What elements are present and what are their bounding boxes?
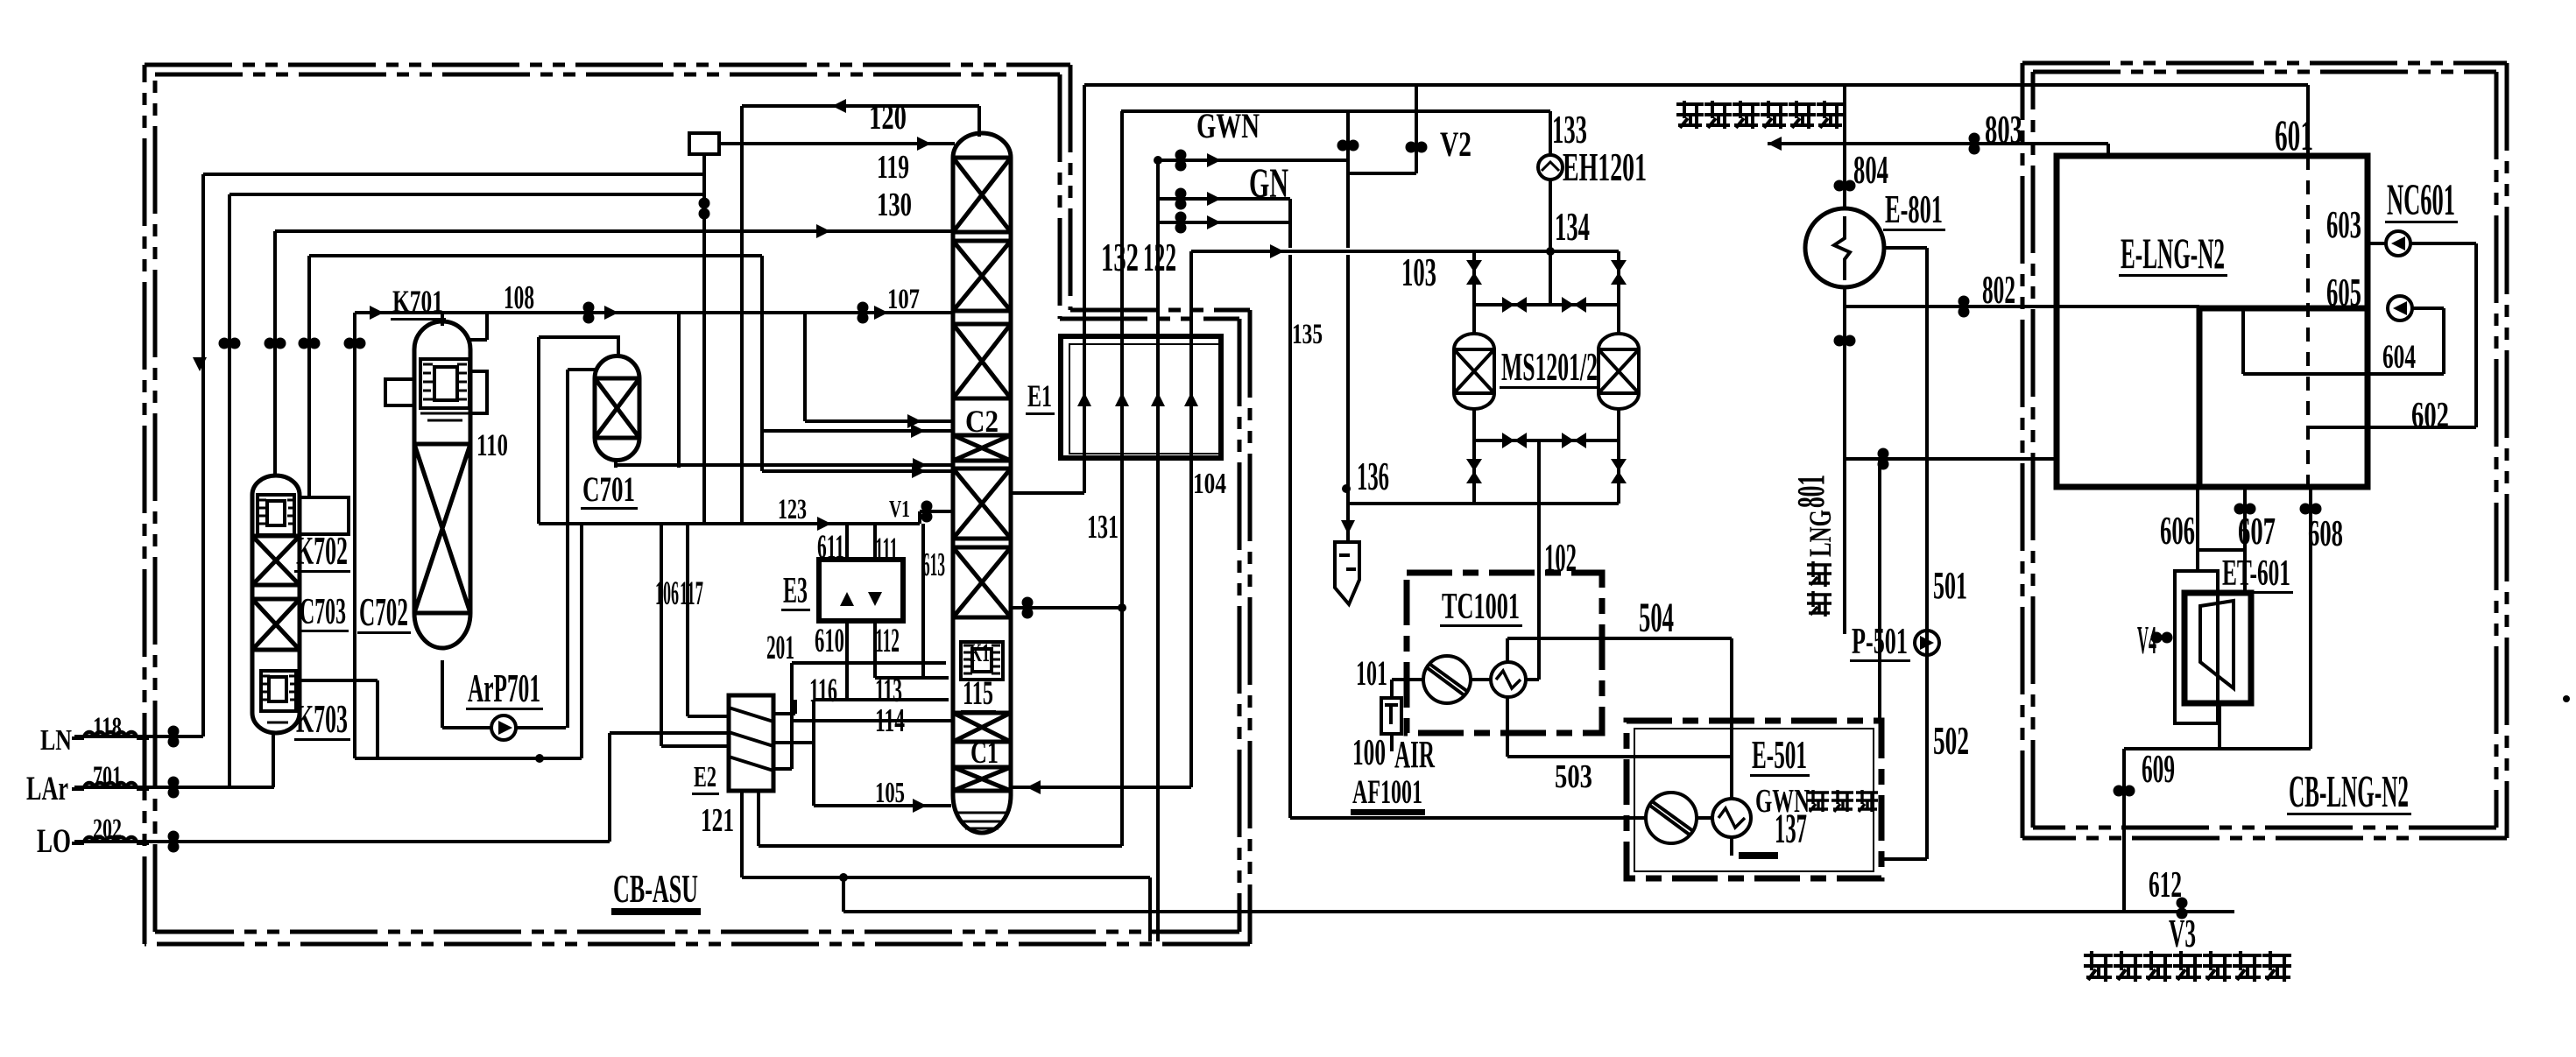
svg-text:E1: E1 <box>1027 378 1052 413</box>
svg-text:100: 100 <box>1352 733 1386 773</box>
valve 803 <box>1969 133 1980 155</box>
CB-LNG-N2 cold box border inner bottom <box>2033 826 2496 830</box>
pipe 802 line to second exchanger box <box>1845 305 2199 308</box>
column packing section small below C2 <box>953 435 1011 461</box>
svg-text:K703: K703 <box>296 697 348 741</box>
label char gao rotated <box>1807 591 1831 617</box>
pipe C701 bottom stub <box>614 461 618 468</box>
exchanger E-501 squiggle <box>1719 808 1745 828</box>
svg-text:EH1201: EH1201 <box>1563 144 1647 189</box>
pipe C702 bottom to pump <box>441 660 444 728</box>
coil LO supply <box>84 837 137 843</box>
pipe 135 feed to E-501 compressor <box>1290 816 1646 820</box>
pump NC601 upper <box>2386 231 2410 256</box>
valve riser4 <box>299 338 321 349</box>
svg-text:613: 613 <box>922 546 945 583</box>
valve instrument drop <box>699 198 710 220</box>
pipe C701 left header drop <box>537 337 540 524</box>
valve 108 <box>583 302 595 324</box>
pipe P4 elbow <box>300 496 309 499</box>
svg-text:K701: K701 <box>392 284 443 319</box>
arrow 123 flow <box>817 517 831 531</box>
junction node <box>535 754 544 763</box>
arrow E1 stream <box>1184 392 1198 406</box>
turbine ET-601 wheel <box>2200 601 2234 688</box>
pipe riser P3 to K702 <box>273 231 277 477</box>
pipe E2 out bottom <box>773 767 792 771</box>
C703 packing upper <box>252 536 300 585</box>
CB-LNG-N2 cold box border inner top <box>2033 70 2496 74</box>
valve MS down left <box>1466 459 1482 483</box>
valve 609 <box>2114 786 2135 797</box>
pipe corner down into E-LNG-N2 top <box>2107 144 2110 156</box>
column sump liquid hatch <box>956 813 1007 828</box>
CB-ASU cold box border inner right <box>1238 319 1242 932</box>
arrow 105 flow <box>913 799 927 813</box>
K701 right stub box <box>470 371 487 413</box>
svg-text:GWN: GWN <box>1196 106 1260 145</box>
arrow E3 stream up <box>840 592 854 606</box>
svg-text:611: 611 <box>817 528 844 566</box>
valve LO <box>168 831 180 853</box>
E-501 bottom smudge <box>1739 852 1778 859</box>
svg-text:K1: K1 <box>970 638 990 667</box>
refrigerator E-501 dash box <box>1627 721 1881 878</box>
pipe 503 line <box>1507 755 1732 758</box>
valve riser5 <box>344 338 366 349</box>
pipe AF1001 filter bottom stub <box>1390 734 1394 751</box>
pipe C701 top link <box>539 337 618 356</box>
valve LN <box>168 726 180 748</box>
svg-text:202: 202 <box>93 814 122 845</box>
second exchanger box L <box>2199 308 2368 487</box>
svg-text:108: 108 <box>504 279 534 316</box>
svg-text:P-501: P-501 <box>1852 622 1908 662</box>
column packing section C1 lower <box>953 767 1011 791</box>
exchanger E2 box <box>729 695 773 791</box>
svg-text:801: 801 <box>1789 475 1832 508</box>
junction node <box>1154 156 1162 165</box>
label 氮 <box>2262 951 2291 982</box>
pipe V2 link <box>1348 172 1416 175</box>
pipe E2 bottom riser <box>757 792 760 846</box>
svg-text:MS1201/2: MS1201/2 <box>1501 344 1598 389</box>
pipe MS lower crossover <box>1474 439 1619 442</box>
label 或 <box>2203 951 2232 982</box>
pipe LO into E2 <box>610 731 729 735</box>
pipe 133 line y=127 <box>1121 109 1550 113</box>
pipe 504 line <box>1507 637 1732 640</box>
pipe GN line <box>1158 197 1290 201</box>
svg-text:E3: E3 <box>783 571 808 611</box>
C702 packing <box>414 444 470 613</box>
arrow branch flow <box>1207 153 1221 167</box>
pipe 101 air line <box>1390 680 1394 698</box>
junction node <box>1342 484 1351 493</box>
arrow 120 flow <box>832 99 846 113</box>
pipe GWN line <box>1158 159 1346 162</box>
svg-text:105: 105 <box>875 777 905 809</box>
valve riser3 <box>265 338 286 349</box>
svg-text:112: 112 <box>875 622 900 659</box>
svg-text:114: 114 <box>875 702 905 739</box>
pipe 201 feed line y=292 <box>309 254 762 257</box>
pipe 604 line <box>2243 372 2444 376</box>
svg-text:136: 136 <box>1357 454 1389 498</box>
svg-text:610: 610 <box>815 622 844 659</box>
arrow to gas grid <box>1768 137 1782 151</box>
junction node <box>1546 247 1555 256</box>
svg-text:ET-601: ET-601 <box>2222 553 2290 594</box>
pipe MS upper crossover <box>1474 303 1619 307</box>
svg-text:111: 111 <box>875 531 898 568</box>
pipe long vertical from 120 corner <box>740 106 744 524</box>
valve 107 <box>857 302 869 324</box>
svg-text:612: 612 <box>2149 865 2182 905</box>
pipe 601 dashed stream inside E-LNG-N2 <box>2306 156 2310 487</box>
pipe 136 riser lower <box>1346 255 1350 504</box>
svg-text:C2: C2 <box>965 404 999 439</box>
pipe C701 bottom header <box>616 463 953 467</box>
pipe C701 feed from 108 line <box>677 313 681 468</box>
pipe E2 out riser <box>794 700 797 714</box>
pipe C701 right riser <box>580 524 583 758</box>
pipe 117 drop <box>660 524 663 746</box>
svg-text:502: 502 <box>1933 718 1969 763</box>
valve 524 line <box>1878 448 1889 470</box>
pipe 132/131 stream through E1 <box>1120 111 1124 846</box>
svg-text:130: 130 <box>877 187 912 223</box>
valve 608 <box>2300 504 2322 515</box>
vent flag <box>1335 542 1359 604</box>
pipe 603 line <box>2368 242 2387 245</box>
label 气 <box>2233 951 2262 982</box>
arrow E3 stream down <box>868 592 882 606</box>
K701 machine box <box>420 359 469 408</box>
pipe LAr line <box>74 786 274 789</box>
pipe E2 out mid <box>773 741 814 744</box>
pipe 603/602 drop <box>2474 243 2478 427</box>
svg-text:GN: GN <box>1249 160 1288 207</box>
svg-text:LNG: LNG <box>1803 510 1838 557</box>
junction node <box>839 873 848 882</box>
pipe 606 drop <box>2196 487 2199 571</box>
valve MS bottom right <box>1562 433 1586 448</box>
E-501 inner box <box>1634 729 1874 871</box>
pipe column reboiler return <box>1011 786 1191 789</box>
valve GWN-133 link <box>1337 140 1359 152</box>
svg-text:601: 601 <box>2275 110 2313 159</box>
arrow E1 stream <box>1115 392 1129 406</box>
junction node <box>1118 603 1126 612</box>
CB-ASU cold box border outer top <box>145 63 1070 67</box>
CB-ASU cold box border inner bottom <box>155 930 1239 934</box>
pump P-501 <box>1915 631 1939 655</box>
svg-text:501: 501 <box>1933 564 1967 607</box>
pipe V1 riser <box>918 511 921 524</box>
svg-text:804: 804 <box>1853 147 1888 192</box>
pipe 120 drop into dome <box>977 106 981 137</box>
svg-text:LO: LO <box>37 822 71 860</box>
pipe V2 branch <box>1415 85 1418 173</box>
label 气 <box>1761 101 1788 129</box>
arrow 108 flow <box>604 306 618 320</box>
svg-text:135: 135 <box>1292 319 1323 350</box>
pipe y=524 from E-801 drop to E-LNG-N2 <box>1845 457 2057 461</box>
svg-text:122: 122 <box>1143 235 1176 279</box>
C703 packing lower <box>252 599 300 650</box>
valve column vapor <box>1022 597 1034 619</box>
arrow branch flow <box>1207 215 1221 229</box>
CB-LNG-N2 cold box border outer right <box>2505 63 2509 838</box>
exchanger E3 box <box>819 560 903 621</box>
pipe 123 line <box>539 522 920 525</box>
pipe MS right down <box>1617 409 1620 504</box>
svg-text:104: 104 <box>1193 468 1226 500</box>
valve MS top right <box>1562 297 1586 313</box>
svg-text:107: 107 <box>887 284 920 315</box>
label 液 <box>2143 951 2172 982</box>
valve GWN <box>1175 150 1187 172</box>
AF1001 filter <box>1381 698 1401 734</box>
pipe MS bottom header <box>1348 502 1619 505</box>
pipe 136 riser upper <box>1346 111 1350 248</box>
compressor E-501 circle <box>1646 793 1697 843</box>
pipe riser P1 left <box>201 174 205 736</box>
pipe 102 down to TC1001 <box>1537 440 1541 680</box>
svg-text:ArP701: ArP701 <box>468 666 540 710</box>
svg-text:605: 605 <box>2326 270 2361 314</box>
svg-text:E-801: E-801 <box>1885 187 1943 231</box>
instrument box on 119 <box>689 133 719 154</box>
pipe 504 drop into E-501 exchanger <box>1730 638 1733 799</box>
svg-text:TC1001: TC1001 <box>1442 587 1520 627</box>
exchanger E1 box <box>1061 336 1221 458</box>
pipe K703 right drop <box>376 680 379 758</box>
valve V4 <box>2151 632 2173 644</box>
pipe MS right riser <box>1617 251 1620 334</box>
pipe 201 drop <box>760 256 764 471</box>
svg-text:201: 201 <box>766 629 794 666</box>
CB-LNG-N2 cold box border inner left <box>2031 72 2036 828</box>
svg-text:E-LNG-N2: E-LNG-N2 <box>2121 229 2225 278</box>
pipe 602 line <box>2310 426 2476 429</box>
svg-text:134: 134 <box>1555 204 1590 249</box>
pipe 134 <box>1549 180 1552 305</box>
label 网 <box>1817 101 1844 129</box>
pipe ArP701 header <box>355 757 582 760</box>
pipe K703 right line <box>300 679 378 682</box>
pipe column feed 481 <box>805 419 953 423</box>
pipe 117 into E2 <box>661 744 729 748</box>
svg-text:GWN: GWN <box>1755 783 1810 820</box>
turbine ET-601 casing <box>2175 571 2218 723</box>
pipe P1 line y=199 <box>203 173 704 176</box>
svg-text:119: 119 <box>877 149 909 186</box>
svg-text:AF1001: AF1001 <box>1352 773 1422 811</box>
valve MS bottom left <box>1502 433 1527 448</box>
column C2/C1 shell <box>953 133 1011 833</box>
pipe LO line <box>74 840 610 843</box>
svg-text:101: 101 <box>1356 653 1387 693</box>
svg-text:123: 123 <box>778 494 807 525</box>
svg-text:608: 608 <box>2308 514 2343 554</box>
pipe riser ArP701 line <box>353 313 356 758</box>
column K1 machine box <box>961 642 1003 680</box>
svg-text:K702: K702 <box>296 529 348 573</box>
pipe 601 corner down to E-LNG-N2 <box>2306 85 2310 156</box>
pipe LN line <box>74 735 203 738</box>
svg-text:110: 110 <box>476 427 508 462</box>
pipe 609 header <box>2124 747 2311 750</box>
C701 packing <box>595 378 639 438</box>
pipe E-801 riser <box>1843 85 1846 209</box>
pipe top product line y=97 <box>1084 83 2308 87</box>
svg-text:LN: LN <box>40 724 72 757</box>
pipe P2 line y=222 <box>229 193 704 196</box>
svg-text:803: 803 <box>1985 107 2022 152</box>
pipe 135 drop upper <box>1288 199 1292 248</box>
pipe 613 drop <box>921 524 925 678</box>
pipe 612 riser off 121 line <box>842 877 845 912</box>
pipe 106 into E2 <box>688 715 729 718</box>
valve 802 <box>1958 296 1970 318</box>
pipe branch down to E-501 box top <box>1878 459 1881 721</box>
pipe 201/114 drop <box>790 663 794 769</box>
pipe 112 below E3 <box>873 621 877 678</box>
column packing section 2 <box>953 241 1011 311</box>
pipe column feed 492 <box>762 429 953 433</box>
E-801 squiggle <box>1834 216 1850 280</box>
pipe column vapor to 131 <box>1011 606 1122 610</box>
svg-text:604: 604 <box>2382 338 2416 376</box>
pipe E-501 circles link <box>1697 816 1712 820</box>
svg-text:503: 503 <box>1555 758 1592 795</box>
pipe 604 riser <box>2241 308 2245 374</box>
svg-text:C1: C1 <box>970 735 999 770</box>
CB-ASU cold box border outer left <box>143 65 147 944</box>
column packing section 5 <box>953 547 1011 617</box>
pipe 201 line inner <box>792 661 946 665</box>
pipe turbine outlet drop <box>2218 703 2221 749</box>
pipe instrument drop <box>702 154 706 524</box>
stray dot <box>2563 695 2570 702</box>
coil LAr supply <box>84 783 137 789</box>
label char ya rotated <box>1807 561 1831 587</box>
pipe V1 into column <box>920 510 953 513</box>
pipe 504 exchanger top riser <box>1506 638 1509 662</box>
pipe 114 line <box>792 719 951 722</box>
svg-text:602: 602 <box>2411 396 2449 436</box>
pipe 501/502 vertical through P-501 <box>1925 248 1929 859</box>
pipe K701 right outlet <box>470 338 487 342</box>
arrow LN riser <box>193 357 207 371</box>
pipe 111 above E3 <box>873 524 877 560</box>
arrow 103 flow <box>1270 244 1284 258</box>
pipe MS left riser <box>1472 251 1476 334</box>
valve riser2 <box>219 338 241 349</box>
svg-text:V2: V2 <box>1440 124 1471 164</box>
label 冷 <box>1831 790 1853 812</box>
svg-text:C703: C703 <box>300 592 346 632</box>
pipe column feed 538 <box>762 469 953 473</box>
valve V1 <box>921 501 933 523</box>
arrow 108 start <box>370 306 384 320</box>
turbo compressor TC1001 dash box <box>1407 573 1602 733</box>
pipe pump discharge riser <box>566 370 569 728</box>
arrow feed 538 flow <box>912 464 926 478</box>
pipe 121 horizontal <box>742 876 1150 879</box>
pipe MS left down <box>1472 409 1476 504</box>
pipe 610 below E3 <box>845 621 849 700</box>
pipe K703 bottom outlet <box>272 734 275 787</box>
arrow E1 stream <box>1151 392 1165 406</box>
CB-ASU cold box border inner step <box>1060 74 1239 319</box>
arrow 107 flow <box>874 306 888 320</box>
vessel K702/C703/K703 shell <box>252 476 300 733</box>
valve MS riser left <box>1466 260 1482 285</box>
CB-ASU cold box border outer right <box>1248 310 1253 944</box>
label 氮 <box>2173 951 2202 982</box>
svg-text:606: 606 <box>2160 508 2195 553</box>
svg-text:V4: V4 <box>2137 617 2156 662</box>
pipe stream A through E1 <box>1083 85 1086 493</box>
arrow 130 flow <box>816 224 830 238</box>
label 天 <box>1704 101 1732 129</box>
pipe riser P4 <box>307 256 311 497</box>
pipe vent drop to flag <box>1346 504 1350 540</box>
pipe 113 line <box>875 676 949 680</box>
pipe C701 side outlet <box>568 368 596 371</box>
pipe under column to E2 <box>759 844 1122 848</box>
pipe compressor to exchanger link <box>1471 678 1491 681</box>
coil LN supply <box>84 732 137 738</box>
pipe pump suction <box>442 726 491 729</box>
pipe E-501 exchanger bottom stub <box>1730 838 1733 856</box>
pipe 119 line <box>719 142 955 145</box>
svg-text:CB-LNG-N2: CB-LNG-N2 <box>2289 767 2409 817</box>
pipe 116 line <box>814 698 949 701</box>
pipe 116/105 drop <box>812 700 815 806</box>
pipe 106 drop <box>686 524 689 716</box>
svg-text:116: 116 <box>809 672 837 709</box>
vessel MS1201 left <box>1454 334 1494 409</box>
pipe 612 long line to V3 <box>843 910 2234 913</box>
svg-text:115: 115 <box>963 674 993 712</box>
arrow reboiler return <box>1027 780 1041 794</box>
arrow E1 stream <box>1077 392 1091 406</box>
column packing section 1 <box>953 158 1011 232</box>
valve LAr <box>168 777 180 799</box>
vessel K701/C702 shell <box>414 321 470 648</box>
valve 804 <box>1834 180 1856 192</box>
pipe third branch line y=254 <box>1158 221 1290 224</box>
pipe 606 elbow <box>2198 548 2245 552</box>
svg-text:607: 607 <box>2238 510 2276 553</box>
pipe 502 elbow to E-501 <box>1881 857 1927 861</box>
valve MS riser right <box>1611 260 1627 285</box>
svg-text:609: 609 <box>2142 746 2175 791</box>
turbine ET-601 body <box>2184 593 2251 703</box>
column packing section 4 <box>953 469 1011 539</box>
label 库 <box>1856 790 1878 812</box>
svg-text:118: 118 <box>93 712 122 743</box>
arrow branch flow <box>1207 192 1221 206</box>
pipe 122 stream through E1 <box>1156 160 1160 941</box>
label 去 <box>1807 790 1829 812</box>
vessel MS1202 right <box>1599 334 1639 409</box>
pipe LO riser to E2 <box>608 733 611 842</box>
